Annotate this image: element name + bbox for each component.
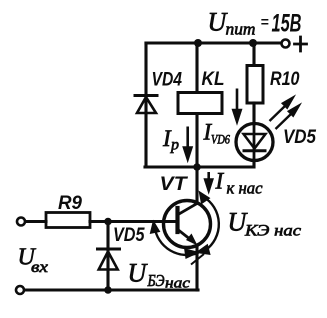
node junction top KL: [194, 39, 202, 47]
wire R9 to node: [90, 220, 108, 223]
LED emission arrows: [270, 98, 299, 129]
label Uke nas: [228, 208, 302, 240]
svg-text:VT: VT: [160, 174, 189, 195]
current arrow Ip: [184, 127, 191, 160]
wire collector: [195, 167, 198, 203]
terminal input bottom: [16, 286, 24, 294]
label IVD6: [203, 120, 231, 147]
svg-text:KL: KL: [202, 69, 225, 90]
node bottom junction: [104, 286, 112, 294]
voltage arc Ube nas: [151, 223, 198, 257]
diode VD4: [135, 96, 157, 114]
wire base: [108, 220, 176, 223]
svg-text:вх: вх: [31, 259, 48, 276]
wire VD5 branch: [106, 222, 109, 291]
LED VD5: [236, 124, 273, 162]
wire left branch upper: [144, 43, 147, 167]
resistor R9: [46, 213, 90, 228]
svg-text:15В: 15В: [272, 10, 302, 38]
current arrow Ik nas: [205, 172, 212, 191]
wire left horizontal to collector node: [145, 165, 197, 168]
svg-text:VD5: VD5: [113, 225, 145, 246]
label Ip: [162, 126, 179, 154]
svg-text:пит: пит: [226, 20, 256, 39]
wire LED bottom to collector node: [197, 160, 254, 167]
svg-text:VD5: VD5: [283, 127, 316, 148]
current arrow IVD6: [233, 89, 240, 122]
svg-text:I: I: [215, 169, 225, 194]
terminal input top: [17, 218, 25, 226]
leader line Ube: [191, 254, 204, 265]
node base junction: [104, 218, 112, 226]
wire emitter: [195, 245, 198, 290]
label Upit = 15V: [208, 8, 302, 39]
svg-text:R10: R10: [270, 69, 300, 90]
wire R10 top: [252, 43, 255, 65]
svg-text:U: U: [128, 259, 149, 288]
svg-text:к нас: к нас: [227, 179, 263, 198]
wire top rail: [146, 41, 281, 44]
svg-text:R9: R9: [58, 193, 82, 214]
transistor emitter arrowhead: [186, 234, 198, 246]
wire KL top: [195, 43, 198, 92]
label Uvx: [18, 245, 49, 277]
svg-text:=: =: [261, 14, 269, 30]
diode VD5 input: [98, 249, 120, 270]
relay coil KL: [178, 93, 222, 114]
svg-text:p: p: [170, 137, 179, 154]
label Ube nas: [128, 259, 191, 292]
svg-text:VD4: VD4: [152, 70, 183, 91]
wire R10 to LED: [252, 103, 255, 124]
label Ik nas: [215, 169, 263, 198]
svg-text:КЭ нас: КЭ нас: [244, 223, 301, 240]
terminal + output: [282, 37, 307, 51]
svg-text:VD6: VD6: [211, 132, 230, 147]
transistor VT: [164, 201, 211, 248]
svg-text:нас: нас: [165, 276, 190, 292]
wire input to R9: [26, 220, 47, 223]
svg-text:БЭ: БЭ: [147, 271, 165, 290]
wire bottom rail: [25, 288, 199, 291]
voltage arc Uke nas: [198, 193, 219, 254]
wire KL bottom: [195, 114, 198, 167]
node collector junction: [193, 163, 201, 171]
node junction top R10: [249, 39, 257, 47]
resistor R10: [247, 66, 263, 104]
